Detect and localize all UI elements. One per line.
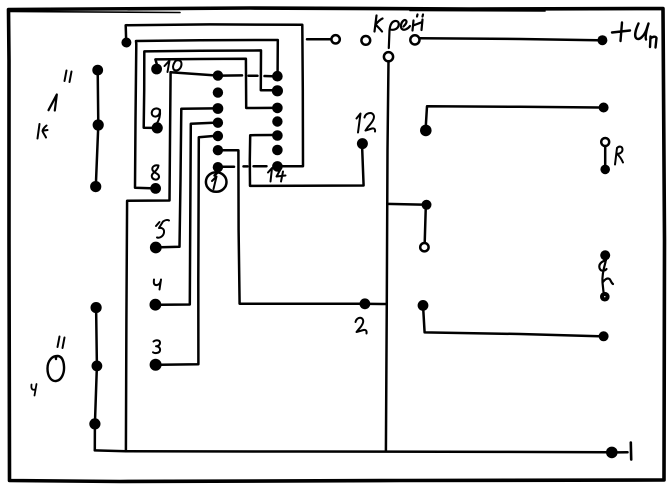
node +Up <box>597 35 607 45</box>
wire stub to KREN pin1 <box>307 38 331 41</box>
IC pin column left (pins x=218) <box>213 70 224 172</box>
KREN regulator terminals <box>331 35 419 61</box>
label 1 (handwritten) <box>49 95 57 111</box>
wire W2 (x136 down to pin8, top run to pin1R) <box>135 40 278 188</box>
wire pin3L to pin5b <box>161 108 214 247</box>
resistor R2 (right, lower) <box>599 250 613 301</box>
wire +Up feed <box>420 38 598 40</box>
wire right lower branch (dot down right to R2 bottom row) <box>418 300 609 341</box>
wire pin5L to pin3b <box>161 136 214 365</box>
IC pin column right (pins x=277.4) <box>272 71 283 172</box>
pin 3b dot and label <box>150 359 162 371</box>
wire left drop from pin1L run (x170 down, left, x126 down to bottom bus) <box>126 72 171 451</box>
label small mark <box>31 384 36 396</box>
label 14 <box>268 168 286 182</box>
pin 9 dot and label <box>152 122 163 133</box>
wire node 2 row <box>360 298 371 309</box>
wire pin5R left-down-right-up to node 12 <box>250 135 364 186</box>
label 0 <box>48 356 65 381</box>
power bus vertical (kren down to bottom) <box>386 61 389 451</box>
resistor R1 (right, upper) <box>600 138 623 174</box>
node J1 <box>121 38 131 48</box>
pin 8 dot and label <box>150 183 161 194</box>
wire pin7 row dashes <box>223 165 267 168</box>
pin 4b dot and label <box>150 299 162 311</box>
wire pin4L to pin4b <box>160 123 213 305</box>
label k <box>38 124 48 139</box>
wire pin6L right, down x238.5, right to node D2, to bus <box>223 150 387 304</box>
label 2 <box>356 318 367 334</box>
switch group 0 (bottom-left contacts) <box>89 302 102 450</box>
wire W4 (pin10 up, run y59.2, down x246 to pin3R) <box>155 59 272 108</box>
bottom common wire <box>95 443 631 460</box>
label ditto marks (top-left) <box>65 71 72 83</box>
label ditto marks (bottom-left) <box>58 337 65 349</box>
wire pin1L row with jump gaps <box>171 72 273 76</box>
wire right top branch (dot to +Up rail right) <box>420 103 609 137</box>
pin 5b dot and label <box>150 242 162 254</box>
label +Up <box>612 23 657 48</box>
label kren <box>375 15 424 49</box>
wire bus branch to base node <box>387 200 431 252</box>
wire W3 (pin9 up x144, top run y50.6, down x261 to pin2R) <box>144 50 273 128</box>
label 12 <box>357 113 376 132</box>
switch group 1 (top-left contacts) <box>90 65 104 193</box>
wire top bus W1 (from J1 up, right, down to pin7R) <box>126 24 303 166</box>
IC designator circled 1 <box>206 171 227 192</box>
pin 10 dot and label <box>151 64 162 75</box>
node 12 dot <box>357 138 368 149</box>
